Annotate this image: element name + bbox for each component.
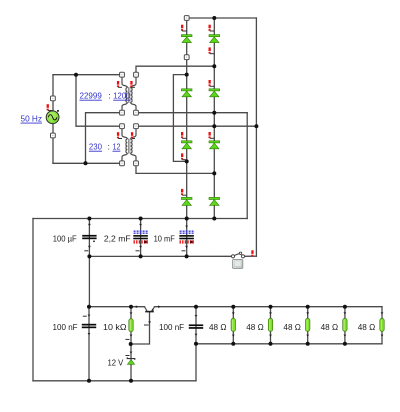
tick R1 bottom	[232, 335, 235, 337]
wire capacitor bottom rail to switch	[89, 255, 233, 257]
capacitor C1 100uF	[82, 235, 96, 242]
node R4 top	[343, 305, 347, 309]
tick Q1 emitter	[158, 305, 160, 308]
wire source branch vertical	[52, 75, 54, 164]
svg-text:2,2 mF: 2,2 mF	[104, 233, 131, 243]
minus mark C3	[182, 250, 186, 252]
svg-text:48 Ω: 48 Ω	[209, 322, 227, 332]
node chain 2 b	[212, 111, 216, 115]
tick R2 top	[269, 312, 272, 314]
warning at source	[47, 104, 53, 110]
svg-text:230: 230	[89, 142, 102, 152]
node C3 bottom	[185, 254, 189, 258]
node R4 bottom	[343, 342, 347, 346]
label T1 colon	[108, 91, 110, 101]
svg-text:48 Ω: 48 Ω	[358, 322, 376, 332]
switch button icon	[233, 259, 243, 268]
node C1 bottom	[87, 254, 91, 258]
tick C2 top	[139, 224, 142, 226]
node C4 bottom	[87, 379, 91, 383]
tick C5 top	[195, 315, 198, 317]
terminal T1 secondary top	[134, 72, 139, 77]
terminal T1 primary top	[120, 72, 125, 77]
capacitor C5 100nF	[189, 324, 203, 328]
node chain 2 rail	[212, 217, 216, 221]
node chain 1 rail	[185, 217, 189, 221]
label T2 primary turns	[89, 142, 102, 152]
node C2 bottom	[139, 254, 143, 258]
warning T1 left	[117, 81, 122, 87]
node right drop junction	[254, 124, 258, 128]
label C4 100nF	[53, 322, 78, 332]
wire T1 secondary top to chain 2	[136, 66, 214, 75]
terminal chain 1 mid	[184, 55, 189, 60]
node chain 2 a	[212, 64, 216, 68]
label R2 48 Ohm	[246, 322, 264, 332]
wire source top to T1 primary top	[53, 74, 122, 76]
transformer T2 230:12	[122, 129, 136, 161]
warning at switch	[251, 250, 253, 256]
wire diode chain 2 vertical	[213, 18, 215, 219]
tick C4 top	[88, 315, 91, 317]
svg-text:100 µF: 100 µF	[53, 233, 77, 243]
capacitor C4 100nF	[82, 324, 96, 328]
resistor R2 48 Ohm	[268, 318, 272, 331]
tick Q1 collector	[136, 305, 138, 308]
warning D6	[209, 132, 215, 138]
wire lower rail left of transistor	[89, 306, 145, 308]
minus mark C4	[83, 315, 87, 317]
transformer T1 22999:1200	[122, 77, 136, 110]
wire bypass around chain 1 diodes	[173, 75, 186, 162]
resistor R3 48 Ohm	[306, 318, 310, 331]
wire left vertical drop	[32, 219, 34, 381]
wire resistor R2 branch	[270, 307, 272, 344]
node Z1 bottom	[129, 379, 133, 383]
minus mark C1	[84, 250, 88, 252]
tick R2 bottom	[269, 335, 272, 337]
warning T1 right	[130, 81, 135, 87]
warning D5 below	[181, 153, 187, 159]
minus mark base wire	[144, 324, 149, 326]
diode D7 (chain 1 row 4)	[181, 197, 192, 205]
warning D2 above	[209, 25, 215, 31]
tick C3 bottom	[185, 246, 188, 248]
svg-text:100 nF: 100 nF	[159, 322, 184, 332]
svg-text:12 V: 12 V	[108, 358, 124, 368]
node R3 bottom	[306, 342, 310, 346]
svg-text:10 kΩ: 10 kΩ	[103, 322, 127, 332]
node R2 top	[269, 305, 273, 309]
node base junction	[129, 342, 133, 346]
terminal T2 secondary top	[134, 124, 139, 129]
tick R5 bottom	[381, 335, 384, 337]
switch SW1	[231, 252, 244, 258]
label C2 2.2mF	[104, 233, 131, 243]
diode D2 (chain 2 row 1)	[209, 35, 220, 43]
node C2 top	[139, 217, 143, 221]
node chain 2 c	[212, 124, 216, 128]
diode D6 (chain 2 row 3)	[209, 141, 220, 149]
zener diode Z1 12 V	[127, 357, 135, 364]
node primary bottom junction	[84, 161, 88, 165]
tick R6 bottom	[130, 335, 133, 337]
svg-text:22999: 22999	[80, 91, 103, 101]
node chain 1 a	[185, 73, 189, 77]
tick C3 top	[185, 226, 188, 228]
label Z1 12V	[108, 358, 124, 368]
warning D1	[181, 25, 187, 31]
wire capacitor C4 branch	[88, 307, 90, 381]
svg-text:10 mF: 10 mF	[154, 233, 175, 243]
node R1 bottom	[231, 342, 235, 346]
label R4 48 Ohm	[321, 322, 339, 332]
node C1 top	[87, 217, 91, 221]
warning T2 right	[131, 132, 135, 138]
label T1 primary turns	[80, 91, 103, 101]
wire switch to right drop	[243, 255, 256, 257]
svg-text:50 Hz: 50 Hz	[21, 114, 43, 124]
node C5 mid	[194, 342, 198, 346]
label R6 10kOhm	[103, 322, 127, 332]
svg-text::: :	[108, 91, 110, 101]
node chain 2 top	[212, 16, 216, 20]
terminal T2 primary bottom	[120, 161, 125, 166]
tick R3 bottom	[306, 335, 309, 337]
tick R1 top	[232, 312, 235, 314]
label C3 10mF	[154, 233, 175, 243]
tick C2 bottom	[139, 246, 142, 248]
warning D5 above	[181, 132, 187, 138]
tick R4 bottom	[344, 335, 347, 337]
minus mark R6	[126, 338, 130, 340]
wire LED-resistor bottom rail	[196, 343, 382, 345]
wire T1 primary bottom feed	[86, 113, 123, 164]
node R6 top	[129, 305, 133, 309]
wire top bus from D-chain-1 to right drop	[187, 17, 257, 19]
minus mark C2	[136, 250, 140, 252]
diode D4 (chain 2 row 2)	[209, 89, 220, 97]
terminal source top	[51, 96, 56, 101]
node chain 1 b	[185, 159, 189, 163]
terminal T2 secondary bottom	[134, 161, 139, 166]
terminal source bottom	[51, 133, 56, 138]
svg-text:48 Ω: 48 Ω	[283, 322, 301, 332]
wire T1 secondary bottom to right	[136, 112, 247, 114]
wire diode chain 1 vertical	[186, 18, 188, 256]
svg-text::: :	[108, 142, 110, 152]
wire resistor R5 branch	[381, 307, 383, 344]
tick Q1 base wire	[148, 321, 151, 323]
tick R4 top	[344, 312, 347, 314]
tick R3 top	[306, 312, 309, 314]
label T1 secondary turns	[113, 91, 130, 101]
warning D2 below	[209, 47, 215, 53]
label T2 secondary turns	[113, 142, 121, 152]
svg-text:48 Ω: 48 Ω	[246, 322, 264, 332]
wire transistor base lead	[131, 312, 150, 344]
label source 50 Hz	[21, 114, 43, 124]
resistor R1 48 Ohm	[231, 318, 235, 331]
diode D5 (chain 1 row 3)	[181, 141, 192, 149]
terminal chain 1 top	[184, 16, 189, 21]
svg-text:48 Ω: 48 Ω	[321, 322, 339, 332]
node primary top junction	[74, 73, 78, 77]
node C5 top	[194, 305, 198, 309]
wire source bottom to T2 primary bottom	[53, 162, 122, 164]
wire capacitor C2 branch	[140, 219, 142, 257]
resistor R5 48 Ohm	[380, 318, 384, 331]
resistor R6 10kOhm	[129, 319, 133, 332]
label R1 48 Ohm	[209, 322, 227, 332]
wire resistor-zener branch	[130, 307, 132, 381]
node R1 top	[231, 305, 235, 309]
tick C5 bottom	[195, 334, 198, 336]
svg-text:1200: 1200	[113, 91, 130, 101]
wire T2 secondary top to right drop	[136, 125, 256, 127]
terminal T2 primary top	[120, 124, 125, 129]
tick C4 bottom	[88, 333, 91, 335]
wire right vertical drop x=247	[246, 113, 248, 219]
diode D8 (chain 2 row 4)	[209, 197, 220, 205]
diode D1 (chain 1 row 1)	[181, 35, 192, 43]
wire T2 primary top feed	[76, 75, 122, 127]
tick C1 bottom	[88, 246, 91, 248]
terminal T1 secondary bottom	[134, 110, 139, 115]
label C1 100uF	[53, 233, 77, 243]
capacitor C3 10mF	[179, 231, 194, 243]
wire T2 secondary bottom to chain 2	[136, 163, 214, 173]
wire ground return rail	[33, 380, 196, 382]
svg-text:12: 12	[113, 142, 121, 152]
resistor R4 48 Ohm	[343, 318, 347, 331]
svg-text:100 nF: 100 nF	[53, 322, 78, 332]
label R5 48 Ohm	[358, 322, 376, 332]
warning D4	[209, 80, 215, 86]
label C5 100nF	[159, 322, 184, 332]
AC source V1 50 Hz	[46, 110, 59, 124]
diode D3 (chain 1 row 2)	[181, 89, 192, 97]
minus mark Z1	[126, 355, 130, 357]
warning D7	[181, 189, 187, 195]
node chain 2 d	[212, 171, 216, 175]
wire capacitor C1 branch / feed to lower stage	[88, 219, 90, 307]
label R3 48 Ohm	[283, 322, 301, 332]
node R3 top	[306, 305, 310, 309]
wire capacitor C5 branch	[195, 307, 197, 381]
wire resistor R4 branch	[344, 307, 346, 344]
wire resistor R3 branch	[307, 307, 309, 344]
tick R6 top	[130, 312, 133, 314]
warning T2 left	[117, 132, 122, 138]
tick Z1 top	[130, 352, 133, 354]
wire resistor R1 branch	[232, 307, 234, 344]
wire lower rail right of transistor	[155, 306, 383, 308]
wire capacitor top rail	[33, 218, 247, 220]
transistor Q1	[145, 307, 155, 312]
node C4 top	[87, 305, 91, 309]
capacitor C2 2.2mF	[133, 231, 148, 243]
wire right vertical drop x=256	[255, 18, 257, 256]
tick C1 top	[88, 224, 91, 226]
label T2 colon	[108, 142, 110, 152]
terminal T1 primary bottom	[120, 110, 125, 115]
node R2 bottom	[269, 342, 273, 346]
tick R5 top	[381, 312, 384, 314]
